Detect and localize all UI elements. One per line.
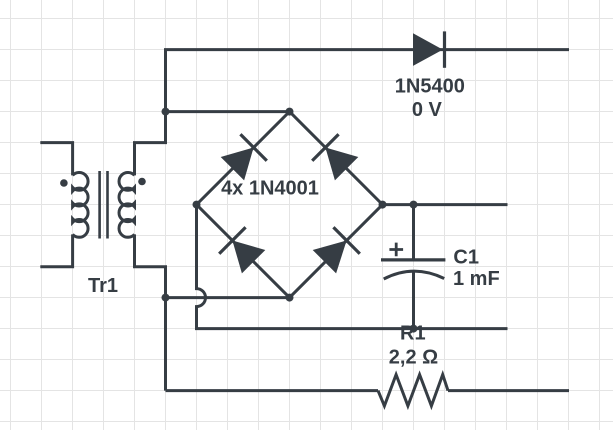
junction node bridge right vertex: [379, 201, 387, 209]
wire junction to bridge bottom vertex: [166, 296, 290, 299]
junction node secondary bottom: [162, 294, 170, 302]
svg-text:1N5400: 1N5400: [395, 76, 465, 98]
svg-text:Tr1: Tr1: [88, 275, 118, 297]
capacitor C1 top lead: [412, 205, 415, 260]
junction node bridge top vertex: [286, 108, 294, 116]
transformer Tr1 primary winding: [73, 173, 88, 238]
svg-text:0 V: 0 V: [412, 99, 443, 121]
resistor R1 zigzag: [378, 375, 448, 406]
diode D1 bridge top-left: [221, 134, 267, 180]
diode D2 bridge top-right: [312, 134, 358, 180]
diode D4 bridge bottom-right: [313, 227, 360, 273]
capacitor C1 bottom curved plate: [384, 271, 445, 279]
svg-text:4x 1N4001: 4x 1N4001: [221, 177, 319, 199]
wire branch to bridge top vertex: [166, 110, 290, 113]
wire bottom rail left segment: [166, 389, 379, 392]
wire bottom rail right segment: [448, 389, 569, 392]
wire bridge left vertex down, hop over crossing wire, corner to capacitor bottom rail: [197, 205, 508, 329]
junction node bridge left vertex: [193, 201, 201, 209]
wire transformer primary bottom: [40, 234, 72, 266]
capacitor C1 bottom lead: [412, 271, 415, 329]
junction node bridge bottom vertex: [286, 294, 294, 302]
svg-text:2,2 Ω: 2,2 Ω: [389, 346, 438, 368]
capacitor C1 top plate: [381, 258, 445, 261]
wire transformer secondary bottom to junction then down to bottom rail: [135, 234, 166, 390]
capacitor C1 plus sign: [389, 243, 403, 257]
wire bridge right vertex to the right (capacitor branch): [383, 203, 508, 206]
wire bridge diamond edges: [197, 112, 383, 298]
svg-text:C1: C1: [453, 247, 479, 269]
diode D5 1N5400: [413, 31, 445, 67]
junction node capacitor top: [410, 201, 418, 209]
transformer Tr1 primary phase dot: [60, 179, 68, 187]
wire transformer primary top: [40, 143, 72, 176]
svg-text:1 mF: 1 mF: [453, 268, 500, 290]
transformer Tr1 core: [100, 171, 108, 239]
transformer Tr1 secondary winding: [119, 173, 134, 238]
junction node top branch: [162, 108, 170, 116]
transformer Tr1 secondary phase dot: [138, 178, 146, 186]
diode D3 bridge bottom-left: [219, 227, 265, 273]
junction node capacitor bottom: [410, 325, 418, 333]
wire top rail from output back to transformer secondary top lead: [135, 50, 570, 176]
